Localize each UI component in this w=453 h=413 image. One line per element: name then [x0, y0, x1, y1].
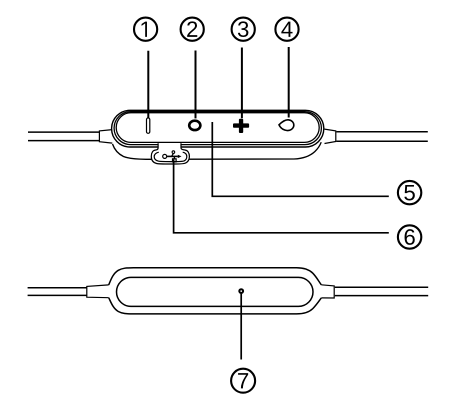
leader line 2 [195, 51, 197, 119]
top control unit middle outline [114, 112, 321, 145]
volume-up plus button [233, 119, 249, 133]
multifunction ring button [189, 121, 200, 130]
battery unit inner outline [117, 277, 314, 306]
LED indicator dot [239, 289, 243, 293]
leader line 6 [174, 160, 389, 233]
right connector (battery unit) [321, 285, 334, 298]
usb oval inner outline [154, 152, 187, 161]
label circle 6 [398, 225, 421, 248]
top control unit outer outline [112, 110, 324, 147]
label circle 2 [181, 18, 204, 41]
label circle 3 [232, 18, 255, 41]
left cable (battery unit) [28, 288, 87, 296]
left connector (battery unit) [87, 285, 109, 298]
top control unit inner outline [116, 113, 319, 143]
label circle 4 [275, 18, 298, 41]
label circle 5 [398, 181, 421, 204]
left connector (top unit) [99, 130, 112, 144]
battery unit outer outline [109, 268, 322, 314]
leader line 7 [240, 294, 242, 360]
leader line 3 [241, 48, 243, 119]
voice-assistant teardrop button [279, 120, 294, 131]
right cable (battery unit) [335, 287, 428, 295]
label circle 7 [231, 369, 255, 393]
leader line 1 [147, 51, 149, 118]
right connector (top unit) [325, 129, 336, 143]
leader line 5 [212, 122, 388, 196]
usb icon [163, 151, 182, 162]
body side bulge (top control unit underside) [113, 142, 322, 159]
left cable (top unit) [28, 132, 99, 141]
label circle 1 [134, 18, 157, 41]
leader line 4 [288, 47, 290, 118]
usb port tab and cover oval (keyhole outline) [151, 143, 189, 164]
volume-down bar button [147, 118, 150, 133]
right cable (top unit) [336, 132, 427, 142]
